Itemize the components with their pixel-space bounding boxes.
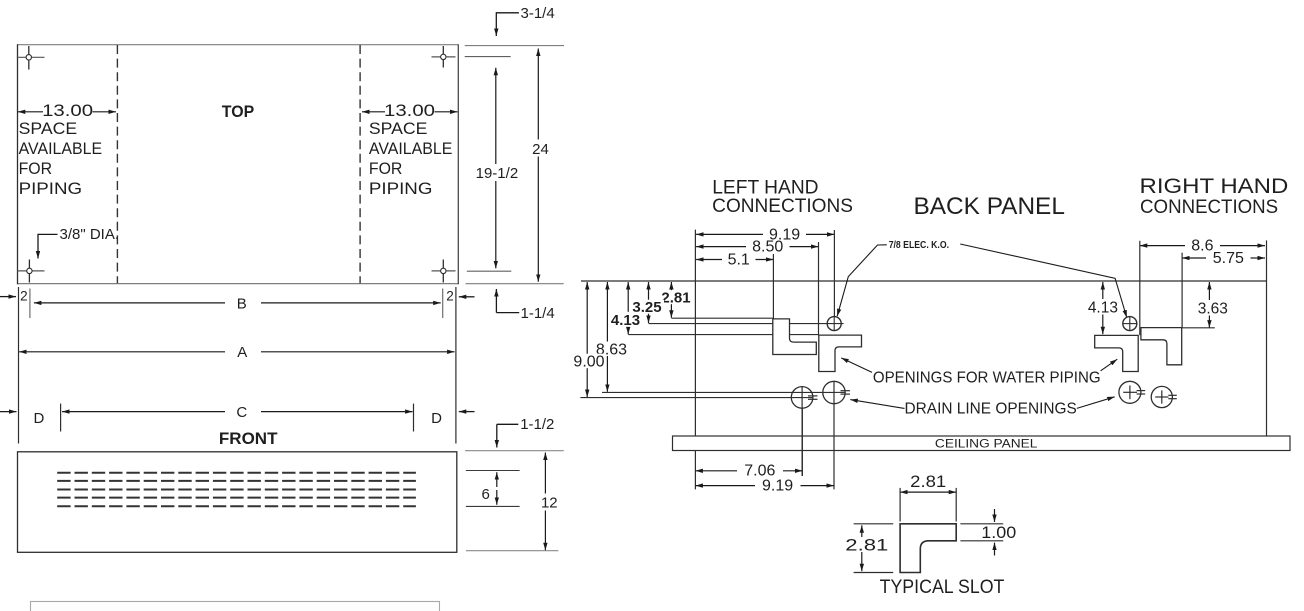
dim 8.63 label (595, 342, 629, 357)
svg-text:PIPING: PIPING (369, 179, 433, 198)
svg-text:B: B (237, 295, 247, 312)
svg-text:4.13: 4.13 (1088, 300, 1118, 317)
svg-text:CEILING PANEL: CEILING PANEL (935, 439, 1038, 451)
svg-text:RIGHT HAND: RIGHT HAND (1140, 175, 1289, 198)
top box left edge (17, 44, 19, 284)
dim 1-1/4 leader (495, 289, 497, 313)
svg-text:19-1/2: 19-1/2 (476, 165, 519, 182)
svg-text:13.00: 13.00 (42, 102, 93, 120)
openings leader left (841, 358, 872, 373)
dim 13.00 left arrows (18, 111, 43, 113)
dim 2.81 line (670, 282, 672, 318)
7/8 KO right leader (960, 244, 1127, 318)
dim 9.00 label (573, 354, 605, 369)
top box right edge (457, 44, 459, 284)
dim 4.13 left label (609, 312, 643, 327)
ext line 5.1 (772, 254, 774, 319)
drain circle left 2 vertical (833, 381, 835, 489)
dim 24 line (537, 49, 539, 282)
dim 5.1 line (696, 259, 722, 261)
dim 1-1/2 leader (496, 424, 498, 447)
svg-text:9.19: 9.19 (762, 478, 793, 495)
panel top edge (581, 280, 1267, 282)
dim C tick right (413, 404, 415, 432)
svg-text:2.81: 2.81 (845, 535, 888, 554)
svg-text:FOR: FOR (369, 159, 403, 178)
drain circle right 1 (1119, 381, 1141, 403)
dim C tick left (60, 404, 62, 432)
louver row 5 (57, 505, 416, 507)
FRONT VIEW GROUP (18, 416, 564, 611)
drain leader left (850, 400, 904, 409)
corner target bottom-right (432, 260, 456, 283)
svg-text:TYPICAL SLOT: TYPICAL SLOT (880, 577, 1005, 598)
dim C line (62, 411, 225, 413)
svg-text:2: 2 (20, 289, 28, 304)
connector 3.25 to KO (649, 323, 844, 325)
drain circle right 2 cross (1155, 396, 1168, 398)
dim 7.06 ext vertical (801, 408, 803, 476)
ext line 8.50 (818, 242, 820, 335)
svg-text:DRAIN LINE OPENINGS: DRAIN LINE OPENINGS (905, 401, 1077, 418)
dim 3.63 line (1208, 282, 1210, 328)
drain circle left 2 (823, 381, 845, 403)
dim 6 down arrow (496, 490, 498, 505)
slot R1 (1095, 335, 1139, 371)
slot L2 (819, 335, 862, 371)
svg-text:TOP: TOP (222, 102, 254, 121)
drain circle right 1 cross (1123, 391, 1137, 393)
connector 4.13 to slot (628, 334, 819, 336)
typslot dim 1.00 up arrow (994, 543, 996, 556)
svg-text:CONNECTIONS: CONNECTIONS (712, 196, 853, 217)
extension line top right (465, 45, 564, 47)
front bottom extension line (466, 550, 558, 552)
KO circle right (1123, 317, 1137, 331)
svg-text:AVAILABLE: AVAILABLE (19, 139, 103, 158)
dim 5.75 line (1182, 257, 1206, 259)
faint table bottom (31, 602, 440, 611)
svg-text:3-1/4: 3-1/4 (521, 5, 555, 22)
connector 2.81 to slot (671, 317, 772, 319)
drain circle left 2 hline (834, 391, 846, 393)
top box bottom edge (17, 283, 458, 285)
BACK PANEL GROUP (573, 175, 1290, 495)
typslot dim 2.81 left line (861, 525, 863, 571)
dim 3.25 label (631, 300, 664, 314)
panel left edge (694, 230, 696, 490)
left edge extension line (18, 287, 20, 444)
svg-text:C: C (236, 404, 247, 421)
dim 4.13 right line (1102, 282, 1104, 334)
right 2 arrow (459, 296, 475, 298)
typslot ext top left (899, 488, 901, 522)
svg-text:8.6: 8.6 (1191, 238, 1213, 255)
KO circle left (827, 317, 841, 331)
svg-text:4.13: 4.13 (611, 312, 640, 329)
ext line 8.6 (1139, 241, 1141, 335)
dim 2.81 label (659, 290, 692, 304)
svg-text:SPACE: SPACE (19, 119, 78, 138)
drain circle right 1 ticks (1137, 390, 1146, 392)
ext line 5.75 (1181, 253, 1183, 328)
typslot ext right bottom (960, 540, 1003, 542)
svg-text:2: 2 (446, 289, 454, 304)
typslot dim 1.00 down arrow (994, 509, 996, 522)
front top extension line (465, 450, 564, 452)
dim 13.00 right arrows (362, 111, 385, 113)
svg-text:1.00: 1.00 (981, 524, 1016, 542)
dim 6 up arrow (496, 472, 498, 487)
typslot ext right top (960, 523, 1003, 525)
MIDDLE DIMS GROUP (0, 287, 475, 448)
drain circle right 2 ticks (1168, 394, 1177, 396)
left 2 tick (29, 289, 31, 319)
TYPICAL SLOT GROUP (844, 473, 1016, 598)
dim 3.63 label (1196, 300, 1229, 316)
KO circle left crosshair (833, 316, 835, 330)
typical slot shape (900, 524, 956, 573)
dim 12 label (538, 494, 559, 511)
louver row 3 (57, 489, 416, 491)
ceiling panel (673, 436, 1291, 451)
dim 24 label (527, 140, 552, 157)
svg-text:3.63: 3.63 (1198, 301, 1228, 318)
svg-text:13.00: 13.00 (384, 102, 435, 120)
ext line 3.63 bottom (1182, 327, 1215, 329)
svg-text:SPACE: SPACE (369, 119, 428, 138)
TOP VIEW GROUP (17, 5, 564, 322)
typslot ext top right (955, 488, 957, 522)
louver row 2 (57, 480, 416, 482)
svg-text:A: A (237, 344, 247, 361)
svg-text:AVAILABLE: AVAILABLE (369, 139, 453, 158)
connector 8.63 to drain (602, 391, 834, 393)
dim 19-1/2 line (495, 68, 497, 269)
right 2 tick (442, 289, 444, 319)
svg-text:24: 24 (532, 141, 549, 158)
dim 7.06 line (695, 470, 737, 472)
dashed piping line right (359, 45, 361, 283)
typslot dim 2.81 top line (900, 491, 956, 493)
svg-text:2.81: 2.81 (910, 473, 946, 491)
extension line bottom right (466, 283, 564, 285)
louver row 1 (57, 472, 416, 474)
dim 4.13 left line (627, 282, 629, 334)
dim 9.19 bottom line (695, 485, 755, 487)
front box (18, 452, 457, 553)
right edge extension line (455, 287, 457, 444)
svg-text:7/8 ELEC. K.O.: 7/8 ELEC. K.O. (889, 240, 949, 251)
top box top edge (17, 44, 458, 46)
3/8 DIA leader (38, 233, 58, 235)
corner target top-left (17, 46, 45, 70)
corner target bottom-left (18, 260, 45, 283)
ext line 9.19 (833, 230, 835, 317)
drain circle left 1 ticks (808, 395, 818, 397)
dim 8.50 line (696, 246, 746, 248)
dim 4.13 right label (1087, 299, 1119, 315)
dashed piping line left (116, 45, 118, 283)
panel right edge (1266, 240, 1268, 436)
svg-text:OPENINGS FOR WATER PIPING: OPENINGS FOR WATER PIPING (873, 369, 1101, 386)
drain circle left 1 (791, 387, 813, 409)
svg-text:2.81: 2.81 (661, 290, 690, 307)
svg-text:8.50: 8.50 (752, 239, 783, 256)
dim B line (34, 302, 225, 304)
svg-text:BACK PANEL: BACK PANEL (914, 193, 1065, 220)
dim A line (19, 351, 225, 353)
extension line bottom target right (467, 270, 512, 272)
dim 12 line (544, 453, 546, 551)
drain circle left 1 vertical (801, 386, 803, 476)
svg-text:6: 6 (482, 486, 490, 503)
typslot dim 2.81 left label (844, 537, 879, 552)
typslot ext left top (854, 523, 894, 525)
grille bottom extension line (466, 505, 520, 507)
typslot ext left bottom (854, 572, 894, 574)
KO circle right crosshair (1129, 316, 1131, 330)
dim 3-1/4 leader (496, 12, 519, 14)
drain circle right 2 (1151, 386, 1172, 407)
dim 9.00 line (586, 282, 588, 397)
svg-text:12: 12 (541, 494, 558, 511)
left 2 arrow (0, 296, 16, 298)
drain circle left 2 ticks (841, 390, 851, 392)
svg-text:PIPING: PIPING (19, 179, 83, 198)
dim 3.25 line (648, 282, 650, 323)
svg-text:CONNECTIONS: CONNECTIONS (1140, 197, 1278, 218)
7/8 KO left leader (837, 245, 887, 316)
drain leader right (1077, 397, 1115, 409)
svg-text:1-1/2: 1-1/2 (520, 416, 554, 433)
svg-text:5.75: 5.75 (1213, 250, 1244, 267)
connector 9.00 to drain (580, 397, 802, 399)
corner target top-right (432, 46, 456, 68)
svg-text:5.1: 5.1 (728, 251, 750, 268)
dim 8.63 line (606, 282, 608, 392)
svg-text:1-1/4: 1-1/4 (521, 305, 555, 322)
svg-text:3/8" DIA.: 3/8" DIA. (60, 226, 120, 243)
dim 9.19 top line (696, 233, 763, 235)
openings leader right (1101, 359, 1118, 371)
drain circle left 1 hline (802, 397, 813, 399)
louver row 4 (57, 497, 416, 499)
slot L1 (773, 319, 817, 355)
extension line corner target right (465, 56, 511, 58)
dim D right arrow (459, 411, 475, 413)
dim 8.6 line (1140, 245, 1185, 247)
svg-text:D: D (431, 410, 442, 427)
dim 19-1/2 label (475, 164, 520, 181)
dim D left arrow (0, 411, 17, 413)
grille top extension line (466, 470, 520, 472)
slot R2 (1141, 328, 1182, 365)
svg-text:FRONT: FRONT (219, 429, 278, 448)
svg-text:9.00: 9.00 (573, 354, 604, 371)
svg-text:FOR: FOR (19, 159, 53, 178)
svg-text:D: D (33, 410, 44, 427)
